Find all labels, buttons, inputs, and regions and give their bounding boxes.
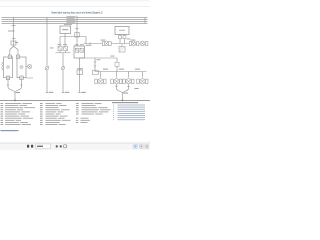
lamp cluster B: [129, 41, 139, 46]
lower right bus wire: [95, 71, 147, 73]
cluster labels: [101, 39, 106, 42]
lamp cluster C: [140, 41, 148, 46]
ground wire left pair: [8, 80, 15, 100]
power bus line X: [2, 20, 148, 22]
wire horizontal mid level: [80, 57, 118, 59]
splice ticks: [94, 61, 96, 63]
right icon save (active): [133, 144, 138, 148]
toolbar icon fit: [64, 145, 67, 148]
wire stub from box: [64, 34, 66, 37]
connector bottom right: [20, 76, 23, 80]
wire drop mid: [64, 37, 66, 47]
svg-text:Brake lights warning lamp circ: Brake lights warning lamp circuit and fu…: [52, 11, 103, 15]
wire split: [10, 46, 14, 56]
power bus line 31: [2, 22, 148, 24]
bulb in right box: [20, 65, 23, 68]
toolbar: [0, 143, 150, 150]
ground point E2: [122, 100, 124, 102]
wire continues to end: [62, 70, 64, 93]
wire drop to bus: [85, 37, 87, 44]
legend column 4 associated diagrams: [112, 102, 145, 120]
bus tap at x145: [144, 17, 146, 23]
box label: [119, 29, 125, 32]
wire destination label: [65, 92, 70, 93]
connector at junction: [93, 70, 99, 75]
switch unit box S2: [74, 46, 85, 58]
legend column 3: [76, 103, 111, 123]
splice ticks: [115, 86, 117, 88]
lamp unit right box: [17, 57, 26, 78]
toolbar icon page-down: [31, 145, 33, 148]
side lamp bulb: [26, 65, 32, 69]
wire horizontal: [60, 36, 86, 38]
wire: third feed x77: [76, 16, 78, 46]
wire: second feed x47: [46, 17, 48, 65]
lamp cluster A: [102, 41, 111, 46]
ground label: [16, 92, 20, 93]
connector top right: [16, 55, 19, 59]
wire end tick: [46, 92, 48, 94]
toolbar icon page-up: [27, 145, 29, 148]
wire: left feed: [13, 17, 15, 45]
wire split right: [14, 46, 19, 56]
page number input: [36, 144, 51, 149]
wire drop x95: [94, 58, 96, 72]
connector symbol: [61, 66, 65, 70]
right bus wire: [84, 43, 147, 45]
wire continues: [46, 70, 48, 93]
ground wire right pair: [117, 84, 123, 99]
wire below switch box: [79, 58, 81, 93]
junction tick: [76, 28, 79, 30]
connector label: [77, 68, 83, 69]
hyperlink text: [1, 130, 19, 131]
connector symbol mid: [45, 66, 49, 70]
label above bend: [111, 55, 115, 58]
wire from cluster down: [62, 53, 64, 67]
net labels above: [103, 69, 108, 70]
wire end tick: [78, 92, 80, 94]
bulb in left box: [6, 65, 9, 68]
connector bottom left: [6, 76, 9, 80]
wire drop x117: [116, 58, 118, 62]
bulb pair labels: [58, 43, 62, 46]
power bus line 15: [2, 18, 148, 20]
wire end tick: [62, 92, 64, 94]
net label: [97, 58, 101, 61]
bulb holder pair: [56, 46, 71, 53]
splice tick: [89, 42, 91, 44]
toolbar icon zoom-out: [56, 145, 58, 147]
legend column 2: [40, 103, 71, 125]
fuse F2: [75, 33, 79, 38]
right icon print: [139, 145, 143, 149]
right icon more: [145, 145, 149, 149]
bulb contact 2: [80, 48, 83, 52]
resistor element: [2, 62, 4, 70]
power bus line 30: [2, 16, 148, 18]
switch box labels: [75, 43, 79, 46]
bus net labels block: [64, 16, 76, 25]
connector top left: [8, 55, 11, 59]
wire destination label: [81, 92, 86, 93]
connector tick: [12, 38, 16, 40]
relay below bus: [119, 47, 125, 53]
control unit box U1: [115, 27, 129, 35]
pin stub 2: [124, 35, 126, 44]
legend column 1: [1, 103, 36, 125]
earth bus line: [0, 99, 150, 101]
connector C1: [11, 41, 16, 45]
pin labels: [127, 38, 131, 41]
wire continues: [116, 67, 118, 72]
label: [15, 41, 18, 44]
wire drop left: [59, 37, 61, 47]
ground label: [124, 93, 129, 94]
lamp L1: [95, 72, 106, 84]
lamp unit left box: [4, 57, 13, 78]
stub wire right: [26, 77, 33, 79]
connector C5: [77, 70, 83, 75]
splice ticks: [7, 84, 9, 86]
connector C6: [115, 62, 119, 66]
page top edge line: [0, 6, 150, 8]
wire destination label: [49, 92, 54, 93]
lamp L2: [111, 72, 122, 84]
ground point E1: [14, 100, 16, 102]
brake switch box S1: [60, 26, 71, 34]
bulb contact 1: [75, 48, 78, 52]
fuse F1: [8, 30, 15, 32]
label far right: [135, 88, 139, 89]
net label: [86, 44, 92, 47]
lamp L4: [137, 72, 148, 84]
box label: [62, 29, 68, 30]
toolbar icon zoom-in: [60, 145, 62, 147]
pin stub 1: [119, 35, 121, 44]
junction tick: [12, 25, 16, 27]
lamp L3: [123, 72, 134, 84]
